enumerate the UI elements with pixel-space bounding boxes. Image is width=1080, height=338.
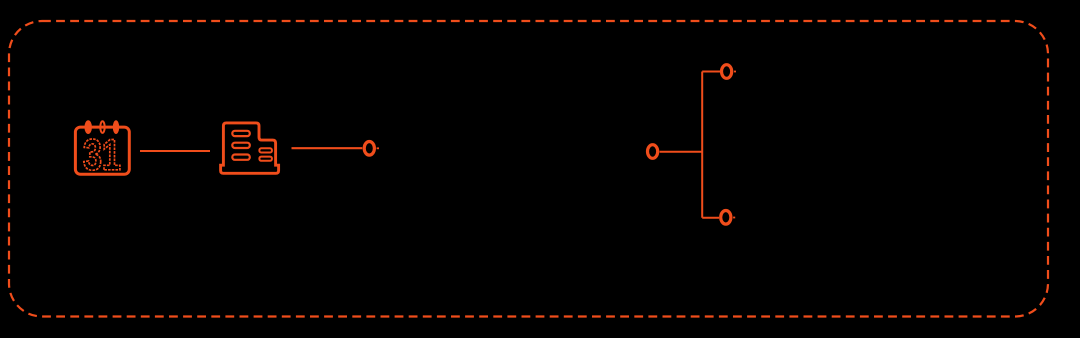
- wire calendar to building: [140, 150, 210, 152]
- wire junction vertical: [701, 72, 703, 218]
- wire branch input to junction: [660, 151, 703, 153]
- terminal T4 circle: [721, 211, 731, 225]
- wire junction to terminal T4: [702, 217, 719, 219]
- terminal T3 stub: [734, 71, 736, 73]
- terminal T3 circle: [722, 65, 732, 79]
- node N2: office building icon: [221, 123, 279, 173]
- terminal T1 circle: [364, 142, 374, 156]
- terminal T2 circle (branch input): [648, 145, 658, 159]
- wire building to terminal T1: [292, 147, 363, 149]
- wire junction to terminal T3: [702, 71, 720, 73]
- terminal T4 stub: [733, 217, 735, 219]
- terminal T1 stub: [377, 147, 379, 149]
- node N1: calendar "31" icon (schedule trigger): [75, 120, 129, 174]
